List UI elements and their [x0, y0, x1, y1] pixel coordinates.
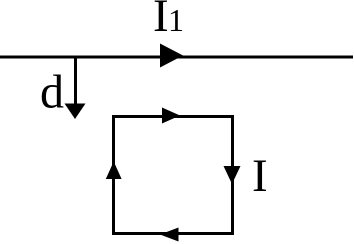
svg-text:I: I [153, 0, 169, 42]
svg-text:1: 1 [168, 2, 184, 38]
svg-text:I: I [252, 150, 268, 202]
svg-text:d: d [40, 66, 64, 119]
